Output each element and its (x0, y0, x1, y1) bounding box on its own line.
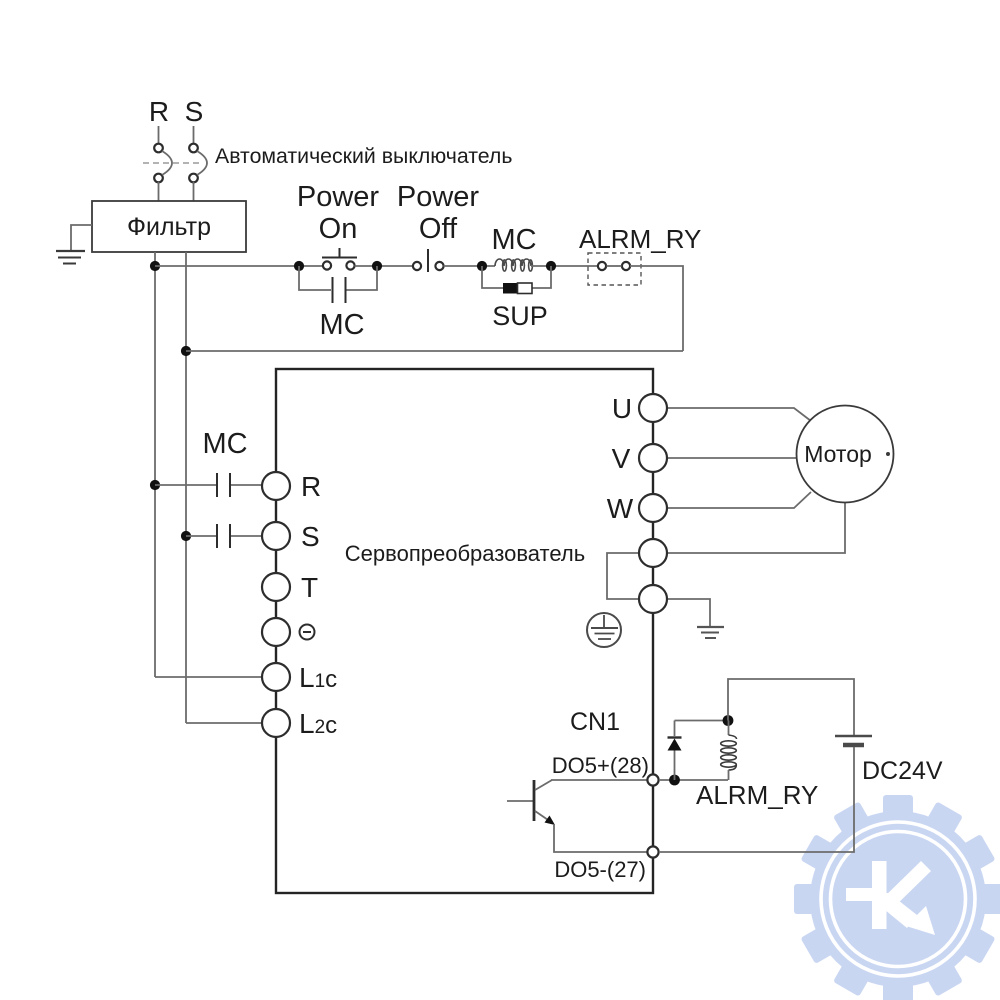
wire power-off to MC coil (444, 265, 496, 267)
svg-text:Сервопреобразователь: Сервопреобразователь (345, 541, 585, 566)
terminal L2c (262, 709, 290, 737)
svg-text:W: W (607, 493, 634, 524)
junction return line (181, 346, 191, 356)
terminal R (262, 472, 290, 500)
svg-text:S: S (185, 96, 204, 127)
pushbutton Power Off (NC) (413, 249, 444, 272)
svg-text:DO5+(28): DO5+(28) (552, 753, 649, 778)
junction R contact tap (150, 480, 160, 490)
svg-text:V: V (612, 443, 631, 474)
wire to L1c (155, 676, 262, 678)
wire S input to breaker (193, 126, 195, 144)
terminal DO5+ (647, 774, 658, 785)
wire control line left (155, 265, 323, 267)
wire emitter to DO5- (554, 824, 647, 852)
terminal L1c (262, 663, 290, 691)
ground (filter) (56, 251, 85, 264)
wire control return line (186, 350, 683, 352)
pushbutton Power On (NO) (322, 248, 357, 270)
motor M (797, 406, 894, 503)
wire to L2c (186, 722, 262, 724)
wire V to motor (667, 457, 797, 459)
breaker mechanical link (dashed) (143, 162, 203, 164)
wire R input to breaker (158, 126, 160, 144)
circuit breaker QF pole 1 (154, 144, 172, 183)
svg-text:Автоматический выключатель: Автоматический выключатель (215, 144, 512, 168)
wire filter output 1 (left bus) (154, 252, 156, 677)
protective earth symbol (587, 613, 621, 647)
terminal S (262, 522, 290, 550)
junction power-on right (372, 261, 382, 271)
flyback diode D1 (668, 721, 682, 781)
watermark logo (794, 795, 1000, 1000)
svg-text:S: S (301, 521, 320, 552)
filter box Фильтр (92, 201, 246, 252)
svg-text:Power: Power (297, 181, 380, 213)
terminal motor ground (639, 539, 667, 567)
svg-text:DO5-(27): DO5-(27) (554, 857, 646, 882)
junction DO5+ branch (669, 775, 680, 786)
terminal DO5- (647, 846, 658, 857)
terminal W (639, 494, 667, 522)
svg-text:ALRM_RY: ALRM_RY (696, 780, 818, 810)
svg-text:U: U (612, 393, 632, 424)
wire W to motor (667, 492, 811, 508)
wire battery to DO5- (659, 747, 854, 852)
wire power-on to power-off (355, 265, 414, 267)
junction power-on left (294, 261, 304, 271)
junction MC coil right (546, 261, 556, 271)
relay contact ALRM_RY (dashed box) (588, 253, 641, 285)
svg-text:Power: Power (397, 181, 480, 213)
wire diode top to coil top (675, 720, 729, 722)
svg-text:DC24V: DC24V (862, 757, 943, 785)
wire filter to ground (71, 225, 92, 250)
MC main contact S phase (186, 524, 262, 548)
wire breaker pole1 to filter (158, 182, 160, 201)
wire breaker pole2 to filter (193, 182, 195, 201)
wire ALRM_RY contact to return (630, 266, 683, 351)
contactor coil MC (495, 259, 532, 271)
svg-text:CN1: CN1 (570, 708, 620, 736)
svg-text:Off: Off (419, 213, 458, 245)
junction MC coil left (477, 261, 487, 271)
circuit breaker QF pole 2 (189, 144, 207, 183)
terminal V (639, 444, 667, 472)
surge suppressor SUP branch (482, 266, 551, 294)
battery DC24V (835, 736, 872, 745)
terminal U (639, 394, 667, 422)
svg-text:SUP: SUP (492, 301, 548, 331)
svg-text:ALRM_RY: ALRM_RY (579, 224, 701, 254)
terminal T (262, 573, 290, 601)
wire motor ground (667, 503, 845, 553)
svg-text:R: R (301, 471, 321, 502)
wire U to motor (667, 408, 811, 421)
relay coil ALRM_RY (721, 721, 737, 781)
servo drive box (276, 369, 653, 893)
svg-text:Мотор: Мотор (804, 441, 872, 467)
svg-text:MC: MC (202, 428, 247, 460)
svg-text:R: R (149, 96, 169, 127)
wire coil top to battery (728, 679, 854, 735)
wire terminal5 to ground (667, 599, 710, 627)
wire DO5+ to relay branch (659, 779, 728, 781)
junction S contact tap (181, 531, 191, 541)
MC main contact R phase (155, 473, 262, 497)
junction coil top (723, 715, 734, 726)
ground (motor shield) (697, 627, 724, 638)
svg-text:MC: MC (319, 309, 364, 341)
wire collector to DO5+ (551, 779, 647, 781)
junction control tap (150, 261, 160, 271)
wire MC coil to ALRM_RY contact (531, 265, 598, 267)
bracket terminal4-terminal5 (607, 553, 639, 599)
terminal shield (639, 585, 667, 613)
MC holding contact branch (299, 266, 377, 303)
svg-text:Фильтр: Фильтр (127, 213, 211, 241)
svg-text:On: On (319, 213, 358, 245)
svg-text:MC: MC (491, 224, 536, 256)
terminal DC minus (262, 618, 290, 646)
svg-text:T: T (301, 572, 318, 603)
wire filter output 2 (right bus) (185, 252, 187, 723)
transistor Q1 (open collector output) (507, 780, 555, 825)
